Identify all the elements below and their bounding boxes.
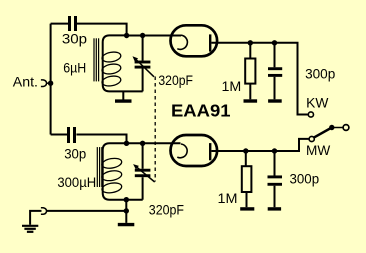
svg-text:1M: 1M	[222, 79, 242, 94]
svg-text:MW: MW	[306, 143, 330, 158]
svg-text:320pF: 320pF	[158, 73, 193, 88]
svg-text:300p: 300p	[290, 171, 320, 186]
svg-text:1M: 1M	[218, 191, 238, 206]
svg-text:6µH: 6µH	[63, 60, 86, 75]
svg-text:KW: KW	[306, 95, 328, 110]
svg-text:300µH: 300µH	[57, 175, 96, 190]
svg-text:EAA91: EAA91	[171, 101, 231, 121]
svg-text:Ant.: Ant.	[13, 74, 38, 89]
svg-text:30p: 30p	[62, 32, 87, 47]
svg-text:30p: 30p	[64, 146, 86, 161]
svg-text:300p: 300p	[305, 66, 335, 81]
svg-text:320pF: 320pF	[149, 203, 184, 218]
